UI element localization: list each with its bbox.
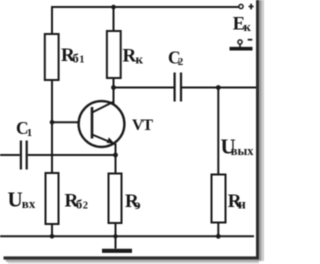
svg-text:1: 1 [79,55,84,66]
svg-text:к: к [136,52,144,67]
svg-text:б: б [72,51,79,66]
svg-text:э: э [135,197,141,212]
svg-text:н: н [238,196,246,211]
svg-text:R: R [123,46,137,67]
svg-text:2: 2 [178,56,184,68]
svg-text:к: к [244,20,252,34]
svg-text:2: 2 [83,200,88,211]
svg-text:U: U [8,188,23,212]
svg-text:вх: вх [22,196,36,211]
svg-text:VT: VT [132,117,153,134]
svg-text:вых: вых [231,144,255,158]
svg-text:б: б [76,196,83,211]
svg-text:1: 1 [27,127,33,139]
